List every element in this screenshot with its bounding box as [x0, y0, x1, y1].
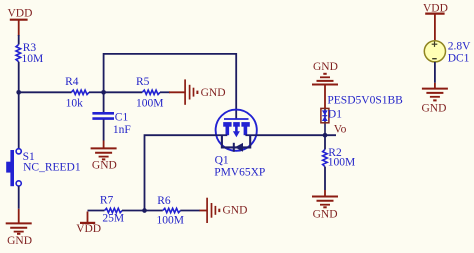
svg-text:GND: GND [313, 61, 338, 73]
resistor R5 100M [136, 76, 163, 110]
svg-text:Q1: Q1 [215, 155, 229, 167]
svg-text:VDD: VDD [76, 223, 101, 235]
wire VDD to R3 [18, 35, 20, 45]
wire Q1 drain to node D [257, 134, 336, 136]
svg-text:10k: 10k [66, 98, 84, 110]
transistor Q1 PMV65XP [214, 110, 265, 179]
svg-text:NC_REED1: NC_REED1 [23, 162, 81, 174]
svg-text:DC1: DC1 [448, 53, 470, 65]
svg-text:GND: GND [201, 87, 226, 99]
svg-text:GND: GND [313, 208, 338, 220]
svg-text:100M: 100M [328, 156, 355, 168]
svg-text:R4: R4 [65, 76, 79, 88]
wire VDD2 to R7 [88, 210, 105, 212]
svg-text:GND: GND [422, 103, 447, 115]
svg-text:C1: C1 [115, 112, 129, 124]
wire DC1 to GND7 [434, 62, 436, 88]
wire node D to R2 [324, 135, 326, 149]
power VDD3 (battery) [423, 2, 448, 41]
ground GND4 (right of R6) [200, 198, 248, 223]
resistor R3 10M [16, 42, 43, 65]
svg-text:PESD5V0S1BB: PESD5V0S1BB [327, 94, 403, 106]
svg-text:R5: R5 [136, 76, 150, 88]
svg-text:GND: GND [92, 160, 117, 172]
ground GND6 (below R2) [312, 197, 338, 221]
wire node B to C1 [103, 92, 105, 112]
svg-text:1nF: 1nF [113, 124, 131, 136]
svg-text:R6: R6 [157, 195, 171, 207]
wire Q1 source to node C [145, 135, 216, 210]
wire GND5 to D1 to node D [324, 108, 326, 135]
svg-text:GND: GND [7, 235, 32, 247]
svg-text:PMV65XP: PMV65XP [214, 167, 265, 179]
node D junction [323, 133, 328, 138]
ground GND5 (flipped, above D1) [312, 61, 338, 108]
wire R6 to GND4 [180, 210, 200, 212]
node B junction [101, 90, 106, 95]
svg-text:25M: 25M [102, 212, 124, 224]
power VDD2 (bottom) [76, 212, 101, 236]
wire node C to R6 [145, 210, 163, 212]
wire R7 to node C [122, 210, 145, 212]
wire S1 to GND3 [18, 186, 20, 223]
svg-text:VDD: VDD [8, 8, 33, 20]
node A junction [16, 90, 21, 95]
svg-text:D1: D1 [328, 109, 342, 121]
switch S1 NC_REED1 [6, 149, 81, 187]
wire R4 to node B [89, 91, 104, 93]
resistor R2 100M [323, 147, 356, 168]
ground GND2 (below C1) [91, 148, 117, 171]
svg-text:Vo: Vo [334, 124, 347, 136]
svg-text:GND: GND [223, 205, 248, 217]
resistor R4 10k [65, 76, 89, 110]
wire node B to R5 [104, 91, 143, 93]
wire R3 to S1 [18, 62, 20, 149]
svg-text:2.8V: 2.8V [448, 40, 471, 52]
ground GND7 (below DC1) [422, 89, 448, 115]
wire R5 to GND1 [160, 91, 170, 93]
node C junction [142, 208, 147, 213]
battery DC1 2.8V [424, 40, 471, 64]
wire gate loop node B to Q1 gate [104, 54, 237, 119]
svg-text:100M: 100M [157, 214, 184, 226]
svg-text:VDD: VDD [423, 2, 448, 14]
svg-text:10M: 10M [22, 53, 44, 65]
svg-text:100M: 100M [136, 98, 163, 110]
diode D1 PESD5V0S1BB [321, 94, 403, 123]
wire R2 to GND6 [324, 167, 326, 196]
wire node A to R4 [19, 91, 72, 93]
ground GND3 (below S1) [6, 223, 32, 247]
wire C1 to GND2 [103, 120, 105, 148]
resistor R7 25M [100, 195, 124, 225]
svg-text:R7: R7 [100, 195, 114, 207]
capacitor C1 1nF [92, 112, 130, 137]
power VDD (top-left) [8, 8, 33, 36]
resistor R6 100M [157, 195, 184, 226]
ground GND1 (right of R5) [169, 79, 226, 104]
